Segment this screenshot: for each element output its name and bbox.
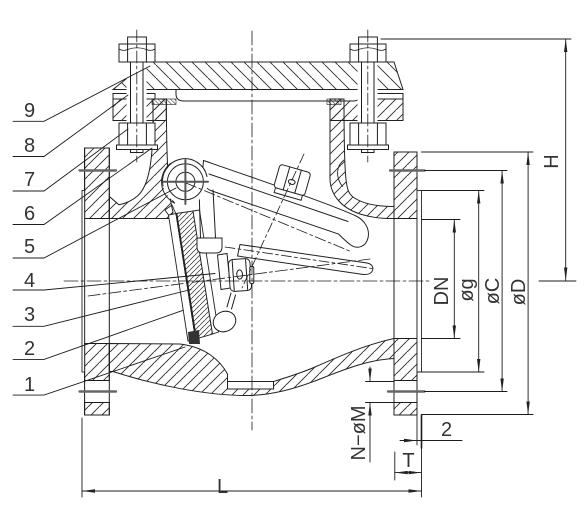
2 dimension (raised face): [400, 415, 462, 448]
right bolt lower nut: [350, 123, 386, 145]
leader 5: [13, 188, 176, 258]
hinge bracket: [197, 187, 222, 253]
disc holder bar axis centerline: [225, 247, 372, 269]
right bolt stud: [362, 44, 375, 153]
leader 9: [13, 66, 150, 121]
svg-text:L: L: [217, 476, 228, 498]
hinge boss outer arc: [163, 159, 208, 204]
bonnet inner boss plate: [176, 90, 361, 102]
seat ring (tilted, dense hatch): [169, 214, 196, 342]
body top flange left slab: [113, 99, 166, 121]
hinge pin outer circle: [167, 164, 203, 200]
svg-text:7: 7: [24, 169, 35, 191]
disc backing plate: [193, 210, 219, 334]
gasket (right, dense hatch): [327, 99, 341, 105]
right flange bolt hole centerline bottom: [388, 390, 425, 392]
leader 7: [13, 129, 128, 191]
left flange bolt hole centerline bottom: [80, 390, 116, 392]
svg-text:6: 6: [24, 203, 35, 225]
seat bottom wedge: [188, 330, 200, 344]
hinge pin inner circle: [176, 172, 195, 191]
leader 6: [13, 148, 152, 225]
bonnet gasket plate right: [349, 94, 403, 100]
arm bolt axis centerline: [242, 154, 304, 288]
oD extension lines: [422, 151, 534, 153]
right bolt washer: [348, 145, 389, 150]
left flange: [85, 148, 110, 415]
og dimension line: [477, 191, 480, 373]
bore lines through right flange: [394, 218, 417, 220]
hinge pin centerline cross: [163, 181, 208, 183]
vertical centerline: [251, 31, 253, 430]
H dimension line: [564, 39, 567, 281]
svg-text:8: 8: [24, 135, 35, 157]
horizontal centerline: [64, 280, 430, 282]
T dimension (flange thickness): [395, 452, 422, 480]
arm bolt (hex head on arm): [272, 164, 311, 201]
disc holder bar (lower): [238, 245, 373, 275]
bonnet cover (hatched trapezoid): [113, 62, 403, 90]
left bolt top cap: [128, 37, 147, 44]
svg-text:4: 4: [24, 270, 35, 292]
bore lines through left flange: [85, 218, 110, 220]
svg-text:5: 5: [24, 236, 35, 258]
svg-text:T: T: [402, 450, 414, 472]
svg-text:øg: øg: [456, 278, 478, 301]
right flange: [394, 152, 417, 415]
right flange bolt hole centerline top: [390, 169, 425, 171]
svg-text:2: 2: [441, 419, 452, 441]
svg-text:9: 9: [24, 100, 35, 122]
right bolt top cap: [359, 37, 378, 44]
oD dimension line: [526, 152, 529, 415]
disc (tilted plate, dense hatch): [176, 211, 213, 339]
body bottom wall band: [109, 339, 394, 396]
N-oM hole dimension: [366, 367, 395, 462]
bottom drain pad notch: [228, 382, 274, 390]
oC dimension line: [500, 171, 503, 392]
body top flange right slab: [330, 99, 403, 121]
left bolt stud: [131, 44, 144, 153]
H top extension line: [381, 38, 571, 40]
right flange raised face: [417, 191, 422, 373]
svg-text:DN: DN: [431, 277, 453, 306]
svg-text:øC: øC: [482, 278, 504, 305]
svg-text:1: 1: [24, 374, 35, 396]
leader 2: [13, 310, 183, 359]
body rib behind hinge boss: [162, 163, 175, 203]
leader 3: [13, 290, 191, 327]
left bolt centerline: [136, 30, 138, 162]
svg-text:3: 3: [24, 304, 35, 326]
left bolt hex nut top: [119, 44, 155, 62]
right bolt hex nut top: [350, 44, 386, 62]
seat top step: [165, 205, 176, 215]
svg-text:øD: øD: [508, 279, 530, 306]
gasket (left, dense hatch): [152, 99, 176, 105]
body left neck wall: [109, 99, 173, 219]
right bolt centerline: [367, 30, 369, 162]
left flange bolt hole centerline top: [80, 169, 116, 171]
DN dimension line: [453, 220, 456, 339]
leader 1: [13, 347, 185, 395]
leader 4: [13, 274, 215, 291]
left bolt washer: [117, 145, 158, 150]
L dimension: [82, 418, 422, 497]
body right neck wall: [330, 99, 394, 219]
disc nut: [228, 258, 252, 291]
cotter pin drop: [210, 293, 239, 335]
oC extension lines: [425, 170, 508, 172]
disc axis centerline: [88, 259, 370, 296]
bonnet gasket plate left: [113, 94, 155, 100]
left flange raised face: [82, 191, 85, 373]
svg-text:N−øM: N−øM: [348, 406, 370, 461]
svg-text:H: H: [541, 154, 563, 168]
left stud channel: [127, 63, 147, 123]
svg-text:2: 2: [24, 338, 35, 360]
leader 8: [13, 95, 128, 157]
disc washer: [218, 254, 231, 290]
swing arm (upper): [202, 161, 368, 248]
og extension lines: [422, 190, 485, 192]
left bolt lower nut: [119, 123, 155, 145]
right stud channel: [358, 63, 378, 123]
DN extension lines: [422, 219, 461, 221]
